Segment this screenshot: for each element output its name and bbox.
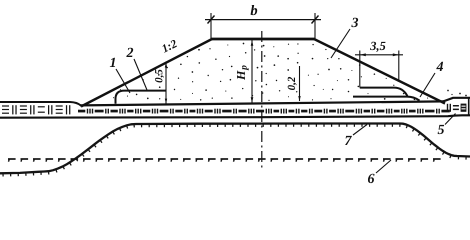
ground surface line under embankment bbox=[80, 101, 444, 105]
leader for label 6 bbox=[376, 160, 391, 173]
dimension 3,5 line bbox=[355, 54, 403, 56]
left natural strip top line bbox=[0, 102, 81, 106]
embankment top edge bbox=[211, 38, 315, 41]
dimension b line bbox=[205, 19, 321, 21]
dimension b extension line right bbox=[314, 13, 316, 39]
callout label 6 bbox=[368, 174, 375, 183]
leader for label 3 bbox=[331, 29, 350, 58]
compressed peat band under embankment bbox=[78, 109, 450, 114]
dimension b left tick bbox=[208, 16, 215, 24]
right slope line bbox=[314, 39, 445, 104]
dimension 0,5 extension line bbox=[165, 62, 167, 105]
leader for label 2 bbox=[134, 59, 147, 90]
callout label 4 bbox=[436, 62, 443, 71]
weak layer lower boundary dashed (label 6) bbox=[8, 159, 441, 162]
excavation bottom curve (label 7) with ticks bbox=[0, 124, 470, 174]
road centerline axis dash-dot bbox=[261, 31, 263, 170]
callout label 7 bbox=[345, 136, 352, 145]
dimension text 3,5 bbox=[370, 42, 385, 52]
dimension text 0,2 (rotated) bbox=[288, 77, 297, 90]
dimension 0,5 bottom arrow bbox=[165, 99, 167, 104]
leader for label 1 bbox=[116, 69, 130, 93]
dimension b extension line left bbox=[210, 13, 212, 39]
dimension Hp top arrow bbox=[251, 40, 254, 46]
dimension 0,5 top arrow bbox=[165, 63, 167, 68]
ground surface step up right of slope foot bbox=[443, 98, 470, 102]
dimension 0,2 arrow bbox=[298, 96, 300, 101]
leader for label 5 bbox=[445, 114, 456, 125]
callout label 5 bbox=[438, 125, 444, 134]
dimension 3,5 right arrow bbox=[393, 53, 399, 56]
dimension text Hp (rotated) bbox=[237, 70, 245, 80]
dimension text 0,5 (rotated) bbox=[155, 69, 164, 82]
callout label 2 bbox=[126, 48, 133, 57]
left slope line bbox=[81, 39, 212, 107]
right strip edge border bbox=[468, 98, 470, 115]
callout label 3 bbox=[351, 18, 358, 27]
slope ratio label 1:2 bbox=[161, 39, 178, 52]
leader for label 7 bbox=[353, 125, 367, 136]
right foot middle layer line bbox=[353, 97, 420, 101]
dimension 3,5 left arrow bbox=[360, 53, 366, 56]
dimension text b bbox=[251, 5, 258, 15]
dimension b right tick bbox=[312, 16, 319, 24]
dimension Hp bottom arrow bbox=[251, 97, 254, 103]
weak layer bottom boundary line bbox=[0, 115, 470, 117]
right strip peat hatch pattern bbox=[447, 104, 467, 112]
left strip peat hatch pattern bbox=[2, 105, 70, 114]
stipple dots of embankment fill bbox=[113, 43, 467, 101]
left berm outline (labels 1,2) bbox=[116, 91, 167, 104]
leader for label 4 bbox=[420, 73, 435, 97]
dimension 3,5 left extension line bbox=[359, 51, 361, 88]
dimension Hp line bbox=[251, 40, 253, 103]
dimension 0,2 extension line bbox=[299, 66, 301, 101]
callout label 1 bbox=[110, 58, 115, 67]
dimension 3,5 right extension line bbox=[398, 51, 400, 82]
right foot upper layer line bbox=[360, 88, 408, 97]
